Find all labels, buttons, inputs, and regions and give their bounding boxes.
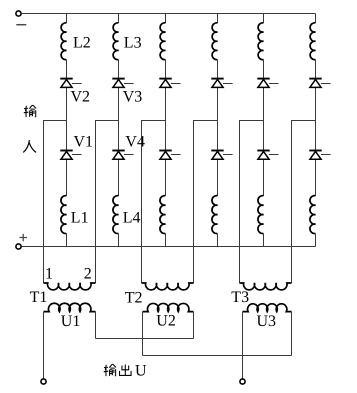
thyristor lower branch 4: [211, 150, 223, 152]
thyristor V1: [60, 150, 72, 152]
wire branch 5 middle segment: [263, 60, 265, 196]
transformer T2 primary winding: [142, 283, 194, 290]
wire mid-node 6 to transformer primary: [291, 120, 293, 283]
thyristor lower branch 3: [159, 150, 171, 152]
inductor upper branch 3: [160, 23, 165, 60]
terminal: output left: [41, 379, 46, 384]
wire branch 4 middle segment: [217, 60, 219, 196]
wire negative rail: [21, 13, 315, 15]
wire U2 left lead down: [142, 312, 144, 356]
svg-text:L4: L4: [123, 209, 141, 226]
wire junction stub branch 6: [292, 120, 316, 122]
thyristor lower branch 5: [257, 150, 269, 152]
wire junction stub branch 1: [44, 120, 67, 122]
wire branch 3 middle segment: [165, 60, 167, 196]
wire U3 right lead down: [291, 312, 293, 356]
wire U1 left lead to output terminal: [43, 312, 45, 379]
wire branch 1 lower segment: [66, 234, 68, 247]
label 出 (output): [120, 365, 132, 376]
svg-text:V2: V2: [71, 88, 91, 105]
svg-text:T3: T3: [231, 289, 249, 306]
thyristor V3: [112, 78, 124, 80]
label 入 (input): [23, 140, 36, 152]
wire branch 1 middle segment: [66, 60, 68, 196]
inductor upper branch 4: [212, 23, 217, 60]
inductor L4: [113, 196, 119, 234]
wire mid-node 4 to transformer primary: [193, 120, 195, 283]
svg-text:T2: T2: [125, 289, 143, 306]
wire branch 4 upper segment: [217, 14, 219, 23]
wire branch 6 lower segment: [315, 234, 317, 247]
svg-text:U: U: [135, 363, 147, 380]
wire branch 6 upper segment: [315, 14, 317, 23]
wire U2 right lead down: [193, 312, 195, 339]
label 输 (input): [24, 105, 36, 117]
svg-text:L3: L3: [124, 35, 142, 52]
thyristor upper branch 4: [211, 78, 223, 80]
thyristor upper branch 5: [257, 78, 269, 80]
svg-text:L1: L1: [71, 209, 89, 226]
thyristor V4: [112, 150, 124, 152]
label - (minus): [16, 24, 26, 26]
inductor lower branch 3: [160, 196, 166, 234]
svg-text:1: 1: [45, 266, 53, 283]
svg-text:2: 2: [84, 266, 92, 283]
label 输 (output): [104, 364, 116, 376]
svg-text:T1: T1: [30, 289, 48, 306]
wire branch 2 upper segment: [118, 14, 120, 23]
wire branch 3 lower segment: [165, 234, 167, 247]
thyristor upper branch 6: [309, 78, 321, 80]
wire link U1-U2 (H1): [96, 338, 194, 340]
wire branch 1 upper segment: [66, 14, 68, 23]
wire junction stub branch 5: [240, 120, 264, 122]
transformer T2 secondary winding U2: [143, 303, 194, 311]
inductor lower branch 4: [212, 196, 218, 234]
terminal: negative input: [16, 11, 21, 16]
svg-text:V3: V3: [123, 88, 143, 105]
wire branch 5 lower segment: [263, 234, 265, 247]
thyristor V2: [60, 78, 72, 80]
thyristor upper branch 3: [159, 78, 171, 80]
transformer T1 primary winding: [44, 283, 96, 290]
wire mid-node 2 to transformer primary: [95, 120, 97, 283]
wire mid-node 5 to transformer primary: [239, 120, 241, 283]
inductor L2: [61, 23, 66, 60]
wire junction stub branch 2: [96, 120, 119, 122]
label + (plus): [20, 234, 28, 241]
svg-text:V1: V1: [74, 134, 94, 151]
wire branch 2 middle segment: [118, 60, 120, 196]
transformer T1 secondary winding U1: [44, 303, 96, 311]
transformer T3 primary winding: [240, 283, 292, 290]
wire U3 left lead to output terminal: [242, 312, 244, 379]
wire junction stub branch 3: [142, 120, 166, 122]
inductor upper branch 5: [258, 23, 263, 60]
wire junction stub branch 4: [194, 120, 218, 122]
svg-text:V4: V4: [125, 134, 145, 151]
wire branch 2 lower segment: [118, 234, 120, 247]
wire mid-node 3 to transformer primary: [141, 120, 143, 283]
transformer T3 secondary winding U3: [243, 304, 292, 312]
wire branch 3 upper segment: [165, 14, 167, 23]
wire branch 5 upper segment: [263, 14, 265, 23]
inductor lower branch 5: [258, 196, 264, 234]
wire U1 right lead down: [95, 312, 97, 339]
svg-text:U3: U3: [257, 313, 277, 330]
svg-text:U1: U1: [61, 313, 81, 330]
thyristor lower branch 6: [309, 150, 321, 152]
inductor L1: [61, 196, 67, 234]
terminal: output right: [240, 379, 245, 384]
wire link U2-U3 (H2): [143, 355, 292, 357]
inductor L3: [113, 23, 118, 60]
wire branch 6 middle segment: [315, 60, 317, 196]
inductor upper branch 6: [310, 23, 315, 60]
wire mid-node 1 to transformer primary: [43, 120, 45, 283]
wire positive rail: [21, 246, 315, 248]
terminal: positive input: [16, 244, 21, 249]
svg-text:L2: L2: [73, 35, 91, 52]
inductor lower branch 6: [310, 196, 316, 234]
wire branch 4 lower segment: [217, 234, 219, 247]
svg-text:U2: U2: [156, 312, 176, 329]
